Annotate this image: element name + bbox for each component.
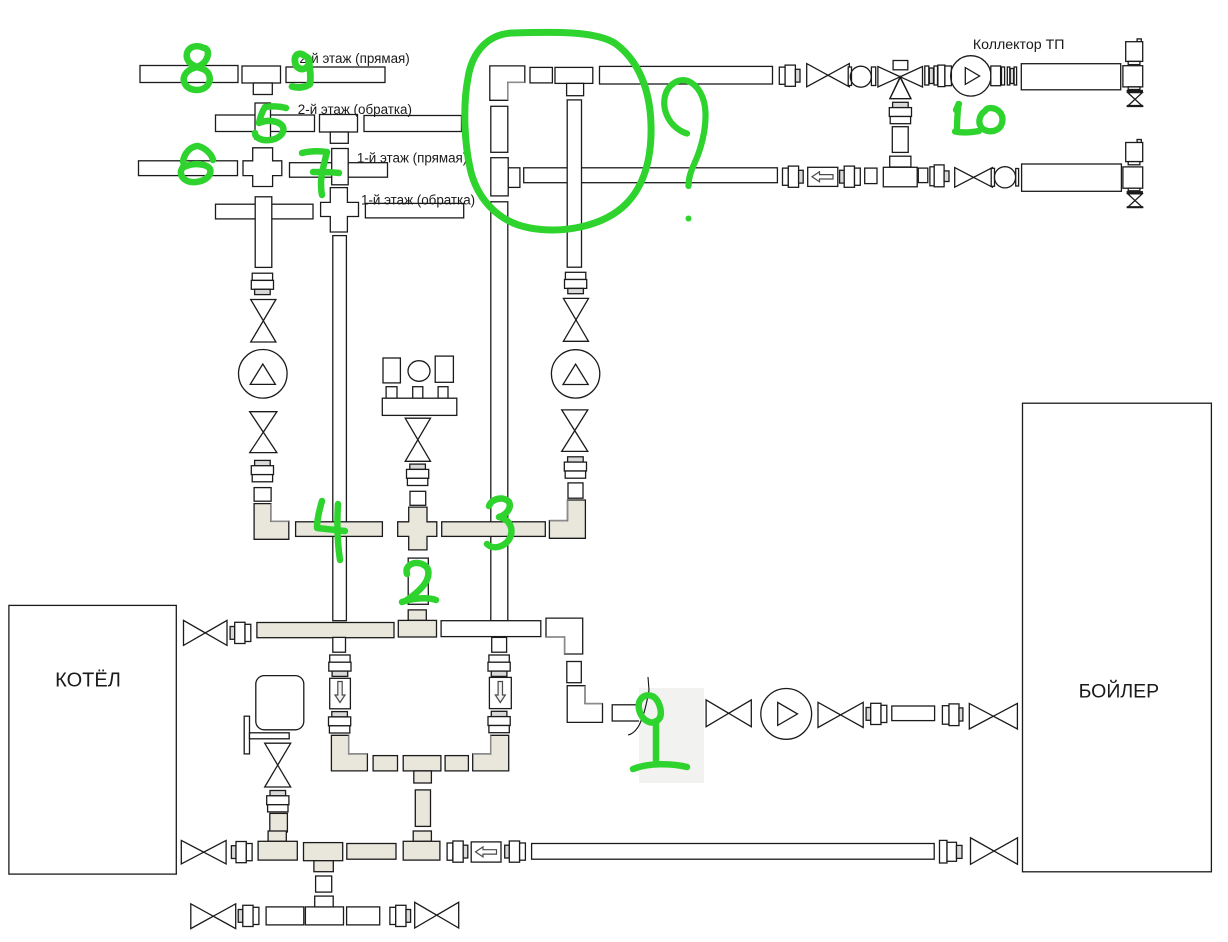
green curl bbox=[664, 80, 705, 186]
riser C segment 1 bbox=[491, 106, 508, 152]
riser B long run bbox=[333, 236, 347, 621]
pipe row2 right bbox=[364, 116, 462, 132]
safety group gauge bbox=[408, 361, 430, 382]
gate valve bbox=[807, 64, 850, 87]
tee center bottom bbox=[304, 843, 343, 872]
ball valve bbox=[991, 167, 1018, 188]
union bbox=[942, 704, 963, 726]
svg-text:КОТЁЛ: КОТЁЛ bbox=[55, 670, 121, 692]
ball valve bbox=[848, 66, 876, 87]
pipe DHW bbox=[892, 706, 935, 721]
union bbox=[251, 460, 273, 481]
union bbox=[681, 703, 702, 724]
union bbox=[329, 655, 351, 676]
drain valve top collector bbox=[1127, 93, 1143, 106]
green digit 1 bbox=[633, 695, 687, 769]
pump flange bbox=[938, 65, 952, 87]
pipe drain left bbox=[266, 907, 304, 925]
pipe row4 right bbox=[365, 203, 463, 218]
manifold A cross bbox=[398, 507, 437, 550]
safety group base bbox=[382, 398, 457, 415]
check valve bottom bbox=[471, 842, 501, 862]
pipe return TP bbox=[524, 168, 778, 183]
elbow bypass lower bbox=[567, 686, 602, 723]
tee drain bbox=[305, 896, 343, 925]
end body bottom collector bbox=[1123, 167, 1143, 194]
svg-text:2-й этаж (обратка): 2-й этаж (обратка) bbox=[298, 102, 412, 117]
union bbox=[565, 272, 587, 293]
manifold A left pipe bbox=[296, 522, 383, 537]
filter left bbox=[330, 678, 351, 709]
union bbox=[866, 703, 887, 724]
valve above pump left bbox=[251, 300, 276, 343]
union bbox=[840, 166, 861, 187]
svg-text:Коллектор ТП: Коллектор ТП bbox=[973, 37, 1065, 53]
connector drain bbox=[316, 876, 332, 892]
elbow to manifold left bbox=[254, 504, 289, 540]
union bbox=[505, 841, 526, 862]
pump DHW bbox=[761, 689, 812, 740]
safety group stubs bbox=[386, 387, 448, 399]
pipe drop three-way bbox=[892, 127, 908, 153]
svg-text:1-й этаж (прямая): 1-й этаж (прямая) bbox=[357, 151, 467, 166]
gate valve boiler return bbox=[181, 840, 226, 864]
drop pipe center bbox=[408, 558, 428, 604]
riser D long run bbox=[567, 100, 581, 267]
drop pipe beige bbox=[415, 790, 430, 827]
pump Коллектор ТП bbox=[951, 56, 991, 96]
gate valve at boiler bottom bbox=[971, 838, 1018, 865]
riser C long run bbox=[491, 202, 508, 621]
union bbox=[238, 905, 259, 926]
nipple bbox=[865, 168, 877, 184]
pipe row3 right bbox=[290, 163, 388, 178]
stub beige center bbox=[408, 610, 426, 621]
stub beige bbox=[413, 831, 431, 841]
pipe row2 left bbox=[216, 115, 315, 132]
union under three-way bbox=[889, 102, 911, 123]
green digit 4 bbox=[317, 501, 345, 560]
pump flange right bbox=[991, 66, 1005, 86]
green digit 6 bbox=[181, 146, 213, 182]
pipe row1 left bbox=[140, 66, 238, 83]
pipe beige tank drop bbox=[270, 813, 288, 832]
union bbox=[779, 65, 800, 86]
green big circle bbox=[465, 32, 651, 230]
fill valve bbox=[265, 743, 291, 787]
stub riser C to return pipe bbox=[508, 168, 520, 188]
elbow fitting top supply bbox=[490, 66, 525, 100]
union bbox=[407, 464, 429, 485]
union bbox=[251, 273, 273, 294]
gate valve before DHW pump bbox=[706, 700, 751, 727]
pen mark near 1 bbox=[628, 677, 649, 735]
union bbox=[783, 166, 804, 187]
green dot bbox=[686, 216, 692, 222]
pump right circuit bbox=[551, 350, 599, 398]
pipe row4 left bbox=[216, 204, 314, 219]
air vent top collector bbox=[1126, 39, 1143, 65]
nipple bbox=[568, 483, 583, 498]
cross fitting row4 bbox=[321, 188, 359, 232]
filter right bbox=[489, 677, 511, 708]
union bbox=[230, 622, 251, 643]
pipe bottom beige bbox=[347, 844, 396, 860]
valve above pump right bbox=[563, 298, 588, 341]
nipple bbox=[918, 168, 928, 183]
gate valve boiler supply bbox=[184, 620, 228, 645]
water heater БОЙЛЕР box bbox=[1023, 403, 1212, 872]
cross fitting row3 bbox=[243, 148, 282, 187]
faint wash near 1 bbox=[639, 688, 704, 783]
nipple bbox=[254, 488, 271, 502]
air vent bottom collector bbox=[1126, 140, 1143, 165]
union bbox=[390, 905, 411, 926]
loop pipe right bbox=[445, 756, 468, 771]
gate valve after DHW pump bbox=[818, 702, 863, 727]
gate valve at boiler inlet bbox=[969, 703, 1017, 729]
nipple bbox=[530, 67, 552, 83]
svg-text:БОЙЛЕР: БОЙЛЕР bbox=[1079, 679, 1160, 703]
label 1-й этаж (обратка) bbox=[361, 192, 475, 207]
union bbox=[1007, 67, 1016, 85]
riser C segment 2 (tee) bbox=[491, 158, 508, 196]
expansion tank bbox=[256, 676, 304, 730]
pump left circuit bbox=[238, 350, 287, 399]
green digit 10 bbox=[955, 104, 1002, 132]
tank bracket handle bbox=[244, 716, 289, 754]
svg-text:2-й этаж (прямая): 2-й этаж (прямая) bbox=[299, 51, 409, 66]
stub beige tank bbox=[268, 831, 286, 841]
riser B crossing row3 bbox=[332, 149, 349, 185]
check valve bbox=[808, 167, 838, 186]
green digit 5 bbox=[255, 106, 286, 140]
union bbox=[930, 165, 949, 187]
valve under safety group bbox=[405, 418, 430, 461]
green digit 8 bbox=[184, 46, 210, 90]
elbow beige bottom left bbox=[331, 735, 367, 771]
manifold B right pipe bbox=[441, 621, 541, 637]
cone under three-way valve bbox=[890, 78, 911, 99]
label Коллектор ТП bbox=[973, 37, 1065, 53]
elbow to manifold right bbox=[549, 500, 585, 538]
tee bottom right bbox=[403, 841, 440, 860]
union bbox=[925, 66, 938, 85]
union bbox=[564, 457, 586, 478]
green digit 9 bbox=[292, 54, 310, 88]
safety group relief valve bbox=[383, 358, 400, 383]
pipe long to boiler bbox=[532, 844, 935, 860]
gate valve drain left bbox=[191, 904, 236, 929]
collector TP top bbox=[1021, 64, 1120, 90]
manifold B left pipe bbox=[257, 623, 394, 638]
union bbox=[940, 840, 963, 863]
boiler КОТЁЛ box bbox=[9, 605, 176, 874]
stub under manifold right bbox=[492, 637, 507, 652]
label 2-й этаж (прямая) bbox=[299, 51, 409, 66]
pipe drain right bbox=[347, 907, 380, 925]
union bbox=[329, 712, 351, 733]
stub under manifold left bbox=[333, 637, 346, 652]
label 2-й этаж (обратка) bbox=[298, 102, 412, 117]
three-way mixing valve bbox=[878, 61, 923, 99]
tee fitting row1 bbox=[242, 66, 281, 95]
collector TP bottom bbox=[1022, 164, 1122, 191]
union bbox=[488, 655, 510, 676]
pipe to DHW pump bbox=[612, 705, 677, 721]
tee fitting supply bbox=[555, 67, 593, 95]
manifold B center tee bbox=[398, 620, 436, 637]
riser A crossing row2 bbox=[255, 103, 271, 139]
elbow manifold B to bypass bbox=[546, 618, 583, 654]
green digit 2 bbox=[402, 563, 436, 602]
tee under tank bbox=[258, 841, 297, 860]
valve below pump right bbox=[562, 410, 588, 452]
end body top collector bbox=[1123, 66, 1143, 93]
union bbox=[267, 791, 289, 812]
elbow beige bottom right bbox=[473, 735, 509, 771]
union bbox=[488, 711, 510, 732]
pipe supply top bbox=[600, 66, 773, 84]
riser A crossing row4 bbox=[255, 197, 272, 268]
manifold A right pipe bbox=[442, 522, 546, 537]
green digit 7 bbox=[302, 151, 339, 195]
nipple bbox=[410, 491, 426, 505]
tee fitting row2 bbox=[320, 115, 358, 144]
nipple bypass bbox=[567, 662, 582, 683]
gate valve drain right bbox=[415, 902, 459, 928]
safety group air vent bbox=[435, 356, 453, 382]
tee fitting return TP bbox=[883, 167, 917, 187]
drain valve bottom collector bbox=[1127, 194, 1143, 207]
union bbox=[447, 841, 468, 862]
pipe row3 left bbox=[139, 161, 238, 176]
valve below pump left bbox=[250, 412, 277, 453]
label 1-й этаж (прямая) bbox=[357, 151, 467, 166]
gate valve bbox=[955, 168, 993, 188]
stub above tee bbox=[890, 156, 911, 167]
svg-text:1-й этаж (обратка): 1-й этаж (обратка) bbox=[361, 192, 475, 207]
union bbox=[231, 842, 252, 863]
pipe row1 right bbox=[286, 67, 385, 83]
loop pipe left bbox=[373, 756, 397, 771]
green digit 3 bbox=[487, 499, 511, 548]
loop center tee bbox=[403, 756, 441, 783]
